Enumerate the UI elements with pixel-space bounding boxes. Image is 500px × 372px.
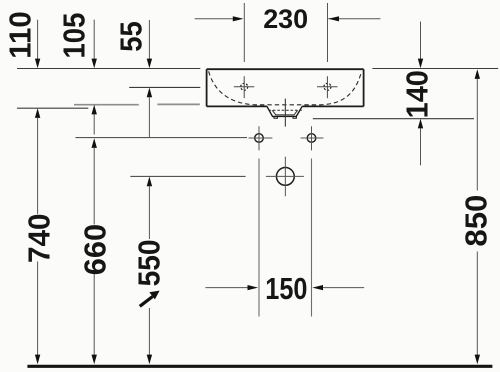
dimension 55 line [148, 20, 150, 60]
wire drain centerline [284, 99, 286, 127]
dimension 110 line [37, 20, 39, 60]
symbol height-adjust arrow [140, 297, 153, 307]
node basin outline [207, 69, 364, 106]
wire mounting hole left crosshair [249, 126, 273, 150]
node drain feet [274, 116, 296, 118]
wire reference line 550 [130, 175, 245, 177]
node tap hole right dashed circle [324, 83, 331, 90]
wire siphon crosshair [266, 157, 304, 197]
node drain inner trapezoid [272, 110, 297, 115]
wire reference line 105 [74, 103, 200, 105]
node tap hole left dashed circle [241, 83, 248, 90]
node mounting hole left [255, 134, 264, 143]
wire reference line 660 [75, 137, 247, 139]
svg-text:550: 550 [131, 239, 166, 286]
wire mounting hole right crosshair [301, 126, 324, 150]
wire tap hole right crosshair [317, 76, 338, 98]
wire basin interior dashed curve [209, 71, 362, 105]
svg-text:230: 230 [263, 4, 308, 34]
dimension 150 line [205, 287, 249, 289]
svg-text:105: 105 [57, 13, 92, 59]
svg-text:150: 150 [265, 271, 307, 306]
svg-text:660: 660 [78, 224, 113, 275]
wire extension line 150 right [311, 159, 313, 317]
svg-text:740: 740 [21, 214, 56, 264]
svg-text:55: 55 [114, 21, 149, 52]
floor line [27, 365, 492, 368]
svg-text:140: 140 [400, 70, 435, 118]
dimension 660 line [92, 138, 97, 148]
dimension 55 lower arrow [147, 88, 152, 98]
wire extension line 230 left [243, 3, 245, 62]
wire tap hole left crosshair [234, 76, 255, 98]
node siphon circle [276, 168, 294, 186]
node mounting hole right [307, 134, 316, 143]
node drain outlet [267, 106, 302, 116]
wire reference line 110-740 [17, 107, 88, 109]
wire extension line 230 right [327, 3, 329, 62]
dimension 230 line [195, 18, 234, 20]
wire reference line 55 [129, 86, 200, 88]
wire reference line 140 bottom [313, 118, 474, 120]
dimension 550 line [147, 177, 152, 187]
wire rim reference line left [17, 68, 200, 70]
dimension 105 line [93, 20, 95, 60]
wire drain inner dashed [269, 109, 302, 111]
svg-text:850: 850 [459, 195, 494, 247]
dimension 140 line [420, 22, 422, 61]
dimension 850 line [475, 69, 480, 79]
wire rim reference line right [372, 68, 498, 70]
dimension 740 line [35, 108, 40, 118]
wire extension line 150 left [258, 159, 260, 317]
dimension 105 lower arrow [92, 105, 97, 115]
svg-text:110: 110 [3, 11, 38, 59]
